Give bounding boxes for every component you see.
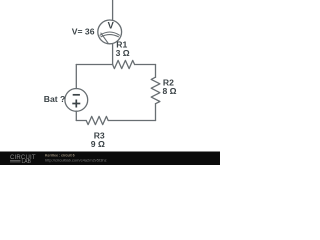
CircuitLab logo bbox=[10, 155, 36, 165]
wire top right segment bbox=[135, 64, 156, 66]
wire left lower bbox=[75, 111, 77, 120]
svg-text:V= 36: V= 36 bbox=[72, 27, 95, 37]
svg-text:http://circuitlab.com/c4a2m2v5: http://circuitlab.com/c4a2m2v5t3hz bbox=[45, 157, 107, 162]
wire bottom left segment bbox=[76, 120, 86, 122]
svg-text:V: V bbox=[108, 20, 115, 30]
wire bottom right segment bbox=[108, 120, 155, 122]
resistor R1 zigzag bbox=[113, 60, 135, 68]
svg-text:LAB: LAB bbox=[22, 159, 32, 165]
wire voltmeter to node bbox=[112, 44, 114, 65]
wire top terminal bbox=[112, 0, 114, 20]
svg-text:3 Ω: 3 Ω bbox=[116, 48, 130, 58]
resistor R3 zigzag bbox=[86, 116, 108, 124]
voltmeter V1 bbox=[98, 20, 122, 44]
wire left upper bbox=[75, 65, 77, 89]
svg-text:9 Ω: 9 Ω bbox=[91, 139, 105, 149]
wire right lower bbox=[155, 104, 157, 121]
battery plus sign bbox=[72, 100, 80, 108]
wire right upper bbox=[155, 65, 157, 78]
resistor R2 zigzag bbox=[151, 77, 160, 104]
wire top left segment bbox=[76, 64, 112, 66]
svg-text:8 Ω: 8 Ω bbox=[163, 86, 177, 96]
svg-text:Bat ?: Bat ? bbox=[44, 94, 65, 104]
footer black bar bbox=[0, 152, 220, 166]
battery minus sign bbox=[73, 94, 80, 96]
battery BAT1 circle bbox=[65, 89, 88, 112]
